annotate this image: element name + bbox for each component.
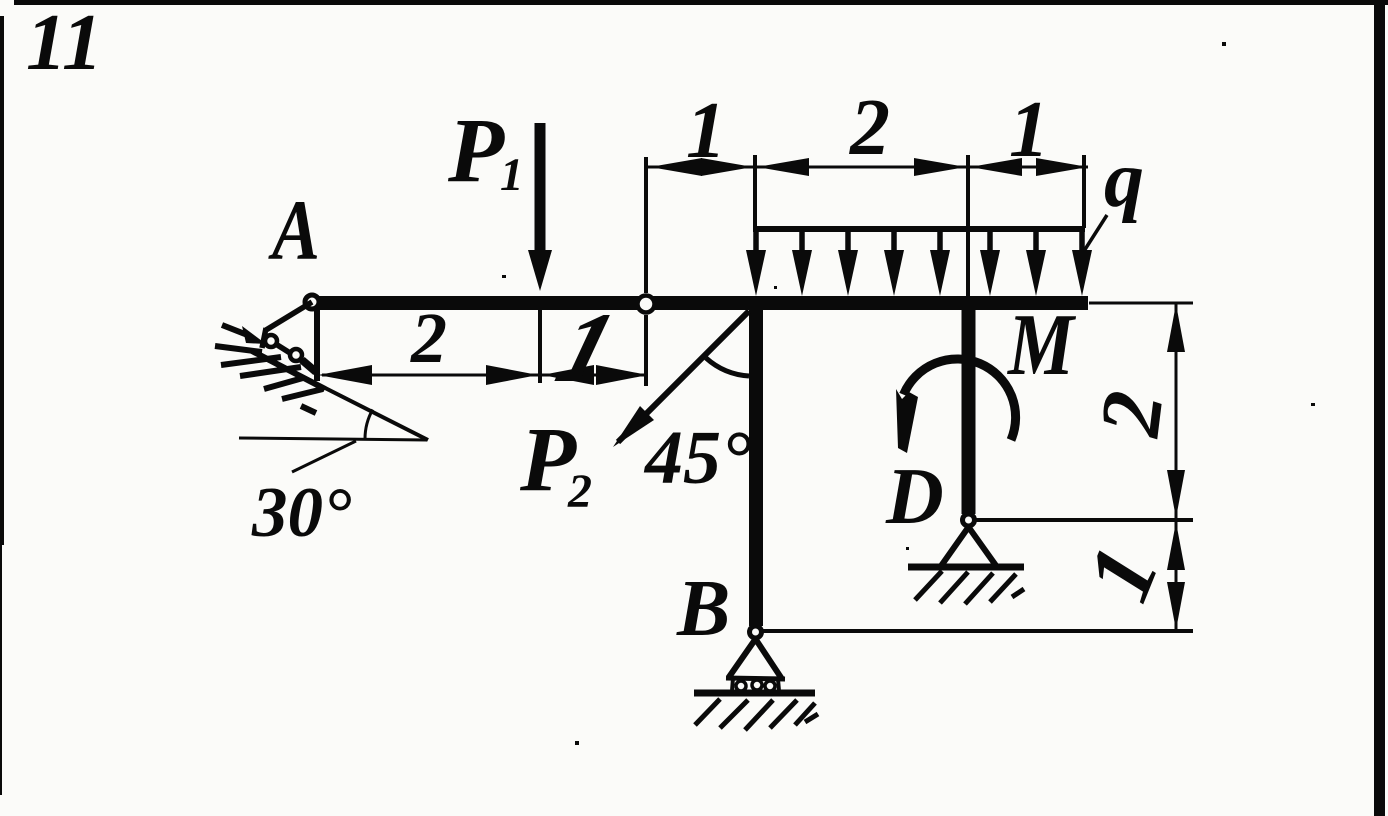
svg-text:1: 1: [500, 149, 524, 201]
svg-text:2: 2: [849, 84, 890, 172]
svg-text:1: 1: [1066, 533, 1178, 614]
force P2 arrow: [618, 311, 749, 442]
svg-text:2: 2: [567, 465, 592, 518]
svg-text:30°: 30°: [251, 474, 351, 552]
right dim extension mid (D level, from pin D): [975, 518, 1193, 522]
dim arrow right at hinge: [596, 365, 648, 385]
support A rollers: [265, 335, 277, 347]
svg-text:2: 2: [1081, 386, 1182, 442]
distributed load arrows: [756, 229, 1082, 262]
moment M arrowhead: [896, 389, 918, 453]
top dim extension at load start: [753, 155, 757, 230]
dim arrows meeting at P1: [486, 365, 538, 385]
svg-text:M: M: [1006, 297, 1076, 394]
support A inclined surface: [254, 352, 428, 440]
dim arrow left at A: [318, 365, 372, 385]
top dim arrowheads: [650, 158, 702, 176]
column B (vertical member to support B): [749, 303, 763, 626]
support B roller end plates: [732, 678, 733, 691]
svg-text:1: 1: [686, 87, 726, 175]
support D hatching: [915, 571, 1024, 604]
pin at B: [750, 626, 762, 638]
force P1 arrow: [535, 123, 546, 252]
45 deg arc: [706, 358, 749, 376]
svg-text:P: P: [447, 99, 505, 201]
support A extension bar below pin: [314, 306, 320, 381]
svg-text:45°: 45°: [643, 416, 751, 500]
P1 line below beam: [538, 310, 542, 383]
top dim extension right: [1082, 155, 1086, 228]
support B hatching: [695, 699, 818, 730]
support A bracket: [262, 302, 312, 363]
hinge circle on beam: [638, 296, 655, 313]
page top border: [14, 0, 1388, 5]
30 deg angle arc: [365, 410, 373, 440]
support B triangle: [729, 639, 782, 679]
hinge extension below beam: [644, 315, 648, 386]
svg-text:A: A: [268, 182, 320, 278]
support D triangle: [941, 527, 997, 567]
support B ground bar: [694, 690, 815, 697]
top dim extension mid (through load): [966, 155, 970, 296]
svg-text:D: D: [885, 453, 944, 541]
30 deg baseline: [239, 438, 427, 440]
svg-text:11: 11: [26, 0, 103, 87]
svg-text:q: q: [1104, 136, 1144, 224]
pin at A: [305, 295, 319, 309]
support A incline thick part: [252, 351, 325, 389]
distributed load q bar: [753, 226, 1085, 232]
support B base bar: [726, 678, 785, 679]
top dimension line (1,2,1): [648, 166, 1088, 169]
pin at D: [963, 514, 975, 526]
right dimension line (2 and 1): [1175, 303, 1178, 629]
support B rollers: [736, 681, 746, 691]
page left border: [0, 16, 4, 545]
moment M arc: [904, 359, 1016, 440]
page right border: [1374, 0, 1385, 816]
svg-text:1: 1: [1009, 86, 1049, 174]
30 deg leader line: [292, 441, 356, 472]
right dim extension bottom (B level, from pin B): [762, 629, 1193, 633]
support A hatching: [215, 325, 323, 413]
hinge extension above beam: [644, 157, 648, 293]
dimension line A-P1-hinge (2 and 1): [322, 374, 648, 377]
column D (vertical member to support D): [962, 303, 976, 514]
svg-text:B: B: [676, 565, 730, 653]
q leader line: [1084, 215, 1107, 251]
right dim arrowheads: [1167, 304, 1185, 352]
scan speckles: [502, 42, 1315, 745]
support A hatch arrow: [242, 326, 266, 344]
beam AC (main horizontal member): [311, 296, 1088, 310]
svg-text:2: 2: [410, 298, 447, 378]
distributed load arrowheads: [746, 250, 1092, 296]
support D ground bar: [908, 564, 1024, 571]
right dim extension top (beam level): [1089, 302, 1193, 305]
support A cluster filler: [302, 360, 316, 372]
